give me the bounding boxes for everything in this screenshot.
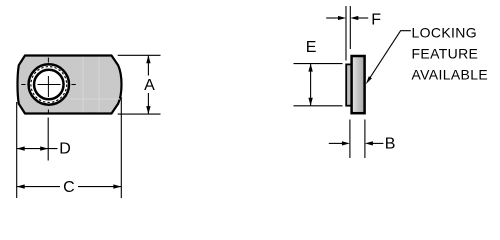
dim E dimension line [310,64,312,106]
dim F extension line left [345,6,347,61]
leader line locking feature [368,31,411,81]
dim E arrow up [308,64,312,72]
dim D extension line (hole centerline extended) [47,118,49,161]
dim C dimension line [17,186,122,188]
dim E extension line bottom [294,105,343,107]
svg-text:A: A [144,77,155,94]
hole outer circle (chamfer) [29,64,69,104]
svg-text:D: D [59,140,71,157]
svg-text:FEATURE: FEATURE [412,46,479,62]
dim C arrow left [17,184,25,188]
dim C right extension line [120,97,122,198]
dim B left leader and arrow [329,142,343,144]
thread circle dashed [31,67,67,103]
svg-text:AVAILABLE: AVAILABLE [412,67,489,83]
dim E extension line top [294,63,343,65]
dim F extension line right [349,6,351,49]
svg-text:B: B [385,135,396,152]
nut body side view [352,56,365,113]
dim F left leader and arrow [326,17,339,19]
dim E arrow down [308,98,312,106]
centerline vertical [47,58,49,113]
dim A extension line top [118,54,161,56]
dim F right leader and arrow [358,17,369,19]
svg-text:E: E [306,39,317,56]
pilot flange side view [346,64,352,105]
dim A dimension line [147,55,149,114]
dim D dimension line [17,148,58,150]
dim D arrow right [40,146,48,150]
dim D arrow left [17,146,25,150]
nut body top view outline [18,56,122,114]
dim C arrow right [113,184,121,188]
dim B extension line right [364,120,366,159]
dim A arrow down [146,106,150,114]
dim B right leader and arrow [372,142,384,144]
dim A extension line bottom [118,113,161,115]
svg-text:F: F [371,12,381,29]
dim B extension line left [349,120,351,159]
centerline horizontal [21,84,76,86]
svg-text:LOCKING: LOCKING [412,24,477,40]
dim C left extension line [16,102,18,198]
hole inner circle [34,70,64,100]
svg-text:C: C [63,179,75,196]
dim A arrow up [146,55,150,63]
